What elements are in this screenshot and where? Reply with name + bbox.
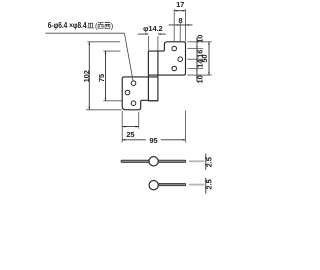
- arrows phi14.2: [145, 33, 148, 35]
- hole U3: [172, 66, 177, 71]
- svg-text:φ14.2: φ14.2: [143, 24, 162, 33]
- dimension extension lines: [86, 9, 212, 142]
- dim line 102: [88, 42, 90, 110]
- dim line 50: [208, 42, 210, 75]
- hole note label: [46, 21, 134, 80]
- svg-text:10: 10: [196, 35, 205, 43]
- holes: upper leaf: [125, 46, 182, 105]
- ext right chain h2: [187, 58, 203, 60]
- dim line phi14.2: [138, 33, 166, 35]
- dim line 25: [122, 126, 139, 128]
- dim line 2.5 row1: [205, 154, 207, 170]
- arrows 102: [89, 42, 91, 45]
- dim line 17: [174, 10, 185, 12]
- arrows 75: [105, 51, 107, 54]
- knuckle left edge: [147, 51, 149, 101]
- side view row2: single leaf edge view: [149, 181, 204, 190]
- svg-text:8: 8: [178, 16, 182, 25]
- arrow pair h1: [196, 46, 197, 48]
- svg-text:): ): [111, 22, 113, 31]
- ext right edge top: [185, 9, 187, 41]
- row1 knuckle circle: [149, 157, 158, 166]
- arrows 95: [122, 139, 125, 141]
- ext hole col2 top: [179, 23, 181, 41]
- lower leaf outline: [122, 77, 158, 110]
- ext right chain h1: [187, 48, 203, 50]
- ext part bottom left: [86, 109, 122, 111]
- arrows 17: [174, 10, 177, 12]
- ext right chain h3: [187, 68, 203, 70]
- leader line to hole L1: [124, 33, 133, 80]
- text 95 with box: [146, 136, 161, 144]
- arrows right chain ends: [196, 39, 198, 42]
- dim line 75: [105, 51, 107, 101]
- part outline: hinge plan view: [122, 42, 185, 110]
- svg-text:95: 95: [149, 136, 157, 145]
- ext bottom step: [138, 112, 140, 129]
- upper leaf outline: [148, 42, 185, 75]
- arrows 50: [208, 42, 210, 45]
- svg-text:25: 25: [126, 130, 134, 139]
- side view row1: assembled edge view: [121, 157, 204, 166]
- row1 plate bar: [121, 160, 186, 162]
- dimension lines: [89, 11, 209, 194]
- hole U1: [172, 46, 177, 51]
- row2 plate bar: [159, 183, 186, 185]
- glyph sara: [87, 23, 94, 28]
- svg-text:6-φ6.4 ×φ8.4: 6-φ6.4 ×φ8.4: [48, 21, 87, 30]
- knuckle bottom cap: [148, 100, 158, 102]
- row2 knuckle circle: [149, 181, 158, 190]
- svg-text:17: 17: [176, 0, 184, 9]
- ext knuckle bottom left: [103, 100, 121, 102]
- label underline: [46, 32, 125, 34]
- ext right chain bottom: [187, 74, 211, 76]
- svg-text:102: 102: [82, 70, 91, 82]
- glyph ryou: [98, 23, 104, 29]
- hole L1: [131, 81, 136, 86]
- ext knuckle right: [157, 36, 159, 50]
- svg-text:2.5: 2.5: [204, 179, 213, 189]
- ext hole col1 top: [173, 9, 175, 41]
- dim line 8: [169, 24, 193, 26]
- dim line 2.5 row2: [205, 178, 207, 194]
- row2 ext band: [189, 184, 205, 186]
- ext knuckle left: [147, 36, 149, 50]
- row1 ext band: [189, 160, 205, 162]
- hole U2: [178, 57, 183, 62]
- dim line 95: [122, 139, 185, 141]
- hole L3: [131, 101, 136, 106]
- arrows 8: [177, 24, 180, 26]
- dimension texts: [82, 0, 213, 189]
- svg-text:10: 10: [196, 75, 205, 83]
- dim line right chain: [196, 37, 198, 82]
- ext part top left: [87, 41, 120, 43]
- arrow pair h2: [196, 57, 197, 59]
- svg-text:50: 50: [200, 55, 209, 63]
- upper leaf step: [148, 42, 167, 51]
- svg-text:2.5: 2.5: [204, 157, 213, 167]
- arrowheads: [89, 10, 210, 189]
- knuckle right edge: [157, 51, 159, 101]
- glyph men: [105, 23, 111, 29]
- ext bottom left edge: [121, 111, 123, 143]
- arrows 25: [122, 126, 125, 128]
- arrows 2.5 row1: [205, 157, 207, 160]
- hole L2: [125, 90, 130, 95]
- arrow pair h3: [196, 66, 197, 68]
- ext bottom right edge: [185, 111, 187, 143]
- ext knuckle top left: [103, 50, 120, 52]
- arrows 2.5 row2: [205, 181, 207, 184]
- svg-text:75: 75: [97, 74, 106, 82]
- ext right chain top: [187, 41, 211, 43]
